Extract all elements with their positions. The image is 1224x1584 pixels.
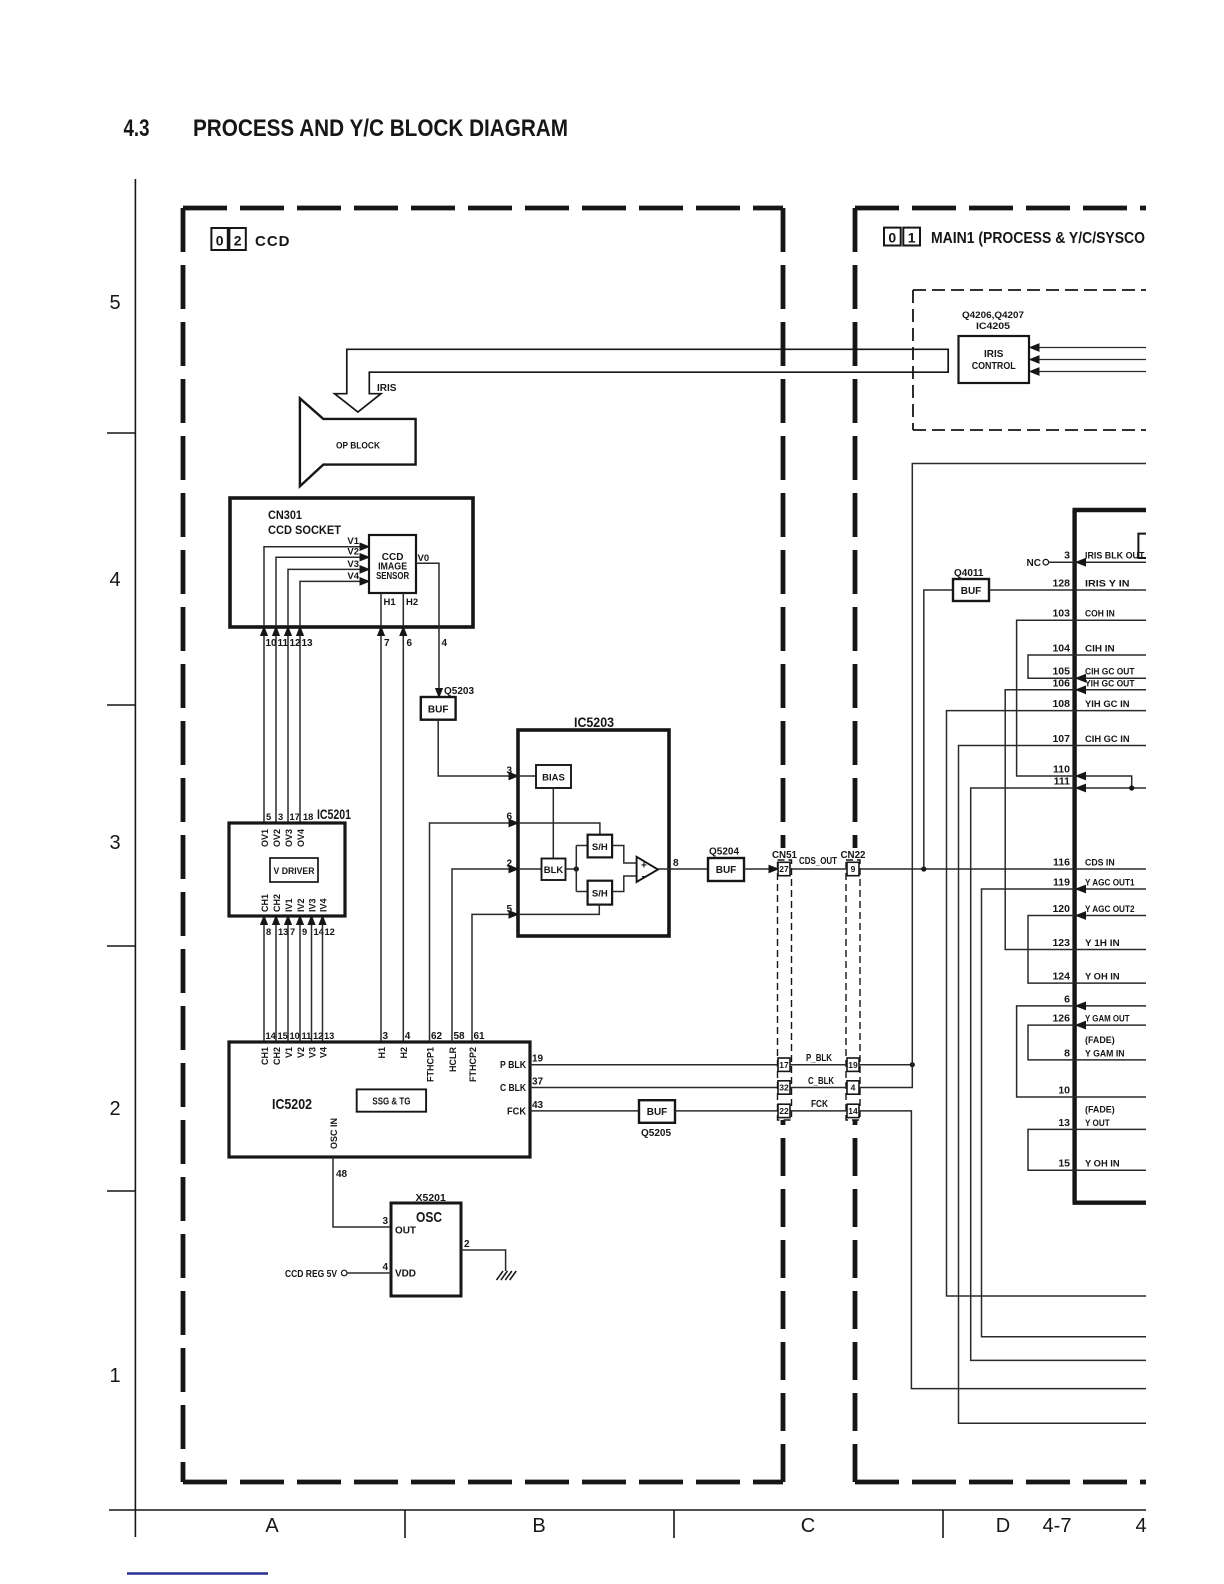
CN51 pin 27: [778, 862, 790, 875]
wire V0 sensor output to Q5203: [416, 563, 439, 689]
ruler tick 2/1: [107, 1190, 135, 1192]
svg-text:C: C: [801, 1515, 815, 1537]
block 01 MAIN1 dashed border bottom: [855, 1480, 1146, 1485]
process IC pin 8 (FADE) Y GAM IN: [1075, 1059, 1146, 1061]
svg-text:CCD SOCKET: CCD SOCKET: [268, 523, 342, 537]
svg-text:Y AGC OUT1: Y AGC OUT1: [1085, 878, 1135, 889]
process IC pin 126 Y GAM OUT: [1075, 1024, 1146, 1026]
svg-text:Y OUT: Y OUT: [1085, 1118, 1110, 1129]
svg-text:NC: NC: [1027, 558, 1041, 569]
svg-text:CN22: CN22: [841, 850, 866, 861]
block label 01 MAIN1 (PROCESS & Y/C/SYSCON): [884, 228, 901, 246]
svg-text:108: 108: [1052, 698, 1070, 710]
svg-text:4-7: 4-7: [1043, 1515, 1072, 1537]
IC U IC5202 SSG timing generator box: [229, 1042, 530, 1157]
wire Q5203 output to IC5203 pin 3: [438, 720, 509, 776]
svg-text:48: 48: [336, 1169, 348, 1180]
process IC pin 110: [1075, 776, 1132, 788]
svg-text:IV2: IV2: [296, 898, 306, 912]
svg-text:IC5201: IC5201: [317, 806, 351, 822]
svg-text:CDS_OUT: CDS_OUT: [799, 856, 837, 867]
wire 14 IC5202 to IC5201: [311, 916, 313, 1042]
svg-text:CH1: CH1: [260, 1047, 270, 1065]
block 02 CCD dashed border right upper: [781, 208, 786, 848]
svg-text:V3: V3: [347, 559, 359, 570]
wire IC5202 pin 61 to IC5203 pin 5: [472, 914, 509, 1042]
svg-text:C BLK: C BLK: [500, 1083, 527, 1094]
connector CN51 dashed body: [778, 860, 792, 1120]
svg-text:COH IN: COH IN: [1085, 609, 1115, 620]
wire CCD REG 5V to VDD: [347, 1272, 391, 1274]
SSG & TG inner box: [357, 1089, 426, 1111]
svg-text:11: 11: [302, 1031, 312, 1041]
block label 02 CCD: [211, 228, 227, 250]
buffer Q5204: [708, 858, 744, 881]
svg-text:4.3: 4.3: [124, 115, 150, 142]
svg-text:0: 0: [216, 233, 224, 249]
svg-text:11: 11: [278, 638, 289, 649]
wire C BLK to CN51 pin 32: [530, 1087, 778, 1089]
svg-text:OSC IN: OSC IN: [329, 1118, 339, 1149]
svg-text:CH1: CH1: [260, 894, 270, 912]
wire iris control input 1: [1038, 347, 1146, 349]
svg-text:13: 13: [278, 927, 288, 937]
iris control dashed sub-box left: [912, 290, 914, 430]
svg-text:P_BLK: P_BLK: [806, 1053, 833, 1064]
IC U IC5201 V driver box: [229, 823, 345, 916]
wire op-amp output pin 8: [658, 868, 708, 870]
wire P BLK to CN51 pin 17: [530, 1064, 778, 1066]
svg-text:FCK: FCK: [507, 1106, 527, 1117]
process IC pin 13 (FADE) Y OUT: [1075, 1128, 1146, 1130]
svg-text:3: 3: [383, 1031, 389, 1042]
ruler tick 3/2: [107, 945, 135, 947]
svg-text:IC5203: IC5203: [574, 714, 614, 730]
svg-text:10: 10: [1058, 1085, 1070, 1097]
svg-text:12: 12: [290, 638, 302, 649]
footer tick B/C: [673, 1510, 675, 1538]
svg-text:IRIS Y IN: IRIS Y IN: [1085, 579, 1130, 590]
wire S/H 1 to op-amp: [612, 846, 637, 864]
svg-text:H2: H2: [406, 597, 418, 608]
wire iris control input 2: [1038, 359, 1146, 361]
svg-text:IV1: IV1: [284, 898, 294, 912]
svg-text:P BLK: P BLK: [500, 1060, 527, 1071]
svg-text:HCLR: HCLR: [448, 1047, 458, 1072]
svg-text:1: 1: [109, 1365, 120, 1387]
S/H sample hold box 1: [588, 835, 613, 858]
svg-text:FTHCP1: FTHCP1: [425, 1047, 435, 1082]
svg-text:BIAS: BIAS: [542, 773, 565, 784]
ground symbol: [497, 1271, 504, 1280]
svg-text:CN301: CN301: [268, 508, 302, 522]
svg-text:BUF: BUF: [428, 705, 449, 716]
svg-text:(FADE): (FADE): [1085, 1104, 1115, 1115]
svg-text:15: 15: [278, 1031, 288, 1041]
wire V4 from CN301 pin to sensor: [300, 581, 361, 823]
svg-text:3: 3: [109, 832, 120, 854]
S/H sample hold box 2: [588, 881, 613, 905]
svg-text:104: 104: [1052, 643, 1070, 655]
svg-text:3: 3: [382, 1216, 388, 1227]
svg-text:8: 8: [1064, 1047, 1070, 1059]
svg-text:OV4: OV4: [296, 829, 306, 847]
ruler tick 5/4: [107, 432, 135, 434]
process IC pin 120 Y AGC OUT2: [1075, 915, 1146, 917]
svg-text:D: D: [996, 1515, 1010, 1537]
svg-text:OSC: OSC: [416, 1209, 442, 1226]
wire V1 from CN301 pin to sensor: [264, 547, 361, 823]
svg-text:V4: V4: [318, 1047, 328, 1058]
svg-text:4: 4: [851, 1083, 856, 1093]
svg-text:5: 5: [109, 292, 120, 314]
svg-text:14: 14: [848, 1106, 858, 1116]
svg-text:IC5202: IC5202: [272, 1096, 312, 1113]
wire pin 13 to pin 15 loop: [1028, 1129, 1075, 1170]
process IC pin 108 YIH GC IN: [1075, 710, 1146, 712]
wire pin 107 long loop: [959, 746, 1147, 1424]
svg-text:Y 1H IN: Y 1H IN: [1085, 938, 1120, 949]
arrow into CN301 pin 11: [273, 627, 280, 636]
buffer Q5203: [436, 689, 443, 698]
svg-text:OV1: OV1: [260, 829, 270, 847]
wire S/H 2 to op-amp: [612, 876, 637, 892]
svg-text:IV4: IV4: [318, 898, 328, 912]
wire CDS to Q4011 input: [924, 590, 953, 869]
wire FCK CN51 to CN22: [790, 1110, 847, 1112]
svg-text:19: 19: [848, 1060, 858, 1070]
svg-text:(FADE): (FADE): [1085, 1035, 1115, 1046]
process IC pin 124 Y OH IN: [1075, 982, 1146, 984]
svg-text:MAIN1 (PROCESS & Y/C/SYSCO: MAIN1 (PROCESS & Y/C/SYSCO: [931, 230, 1145, 247]
block 02 CCD dashed border bottom: [183, 1480, 783, 1485]
svg-text:−: −: [642, 872, 648, 883]
wire CDS_OUT CN51 to CN22: [790, 868, 847, 870]
IC U main process IC top edge: [1073, 508, 1147, 512]
svg-text:CIH GC OUT: CIH GC OUT: [1085, 667, 1135, 678]
svg-text:CIH GC IN: CIH GC IN: [1085, 734, 1130, 745]
oscillator X5201 box: [391, 1203, 461, 1296]
svg-text:OP BLOCK: OP BLOCK: [336, 441, 380, 452]
process IC pin 123 Y 1H IN: [1075, 949, 1146, 951]
process IC pin 6: [1075, 1005, 1146, 1007]
wire IC5202 pin 58 to IC5203 pin 2: [452, 869, 509, 1042]
wire IC5202 pin 62 to IC5203 pin 6: [430, 823, 510, 1042]
process IC pin 116 CDS IN: [1075, 868, 1146, 870]
wire CDS to process IC pin 116: [859, 868, 1075, 870]
svg-text:12: 12: [325, 927, 335, 937]
svg-text:S/H: S/H: [592, 889, 608, 900]
IC U main process IC bottom edge: [1073, 1200, 1147, 1204]
wire C_BLK CN51 to CN22: [790, 1087, 847, 1089]
arrow into CN301 pin 12: [285, 627, 292, 636]
V DRIVER inner box: [270, 858, 318, 882]
svg-text:10: 10: [290, 1031, 300, 1041]
BIAS inner box: [518, 775, 536, 777]
BLK inner box: [542, 859, 566, 881]
svg-text:Y OH IN: Y OH IN: [1085, 972, 1120, 983]
svg-text:22: 22: [779, 1106, 789, 1116]
svg-text:H1: H1: [377, 1047, 387, 1059]
wire BLK to S/H split: [566, 868, 577, 870]
svg-text:4: 4: [1135, 1515, 1146, 1537]
svg-text:IRIS: IRIS: [984, 349, 1004, 360]
process IC pin 15 Y OH IN: [1075, 1169, 1146, 1171]
wire P_BLK CN51 to CN22: [790, 1064, 847, 1066]
blue scan artifact line: [127, 1572, 268, 1575]
svg-text:17: 17: [290, 812, 300, 822]
svg-text:CIH IN: CIH IN: [1085, 644, 1115, 655]
block 01 MAIN1 dashed border left upper: [853, 208, 858, 848]
wire pin 120 to pin 124 loop: [1028, 916, 1075, 984]
svg-text:CH2: CH2: [272, 894, 282, 912]
svg-text:13: 13: [302, 638, 314, 649]
svg-text:V3: V3: [307, 1047, 317, 1058]
svg-text:110: 110: [1053, 764, 1070, 776]
svg-text:58: 58: [454, 1031, 466, 1042]
wire IC5202 pin 48 to OSC: [333, 1157, 391, 1227]
process IC pin 106 YIH GC OUT: [1075, 689, 1146, 691]
svg-text:43: 43: [532, 1100, 544, 1111]
junction dot CDS / Q4011 input: [921, 866, 926, 871]
svg-text:C_BLK: C_BLK: [808, 1076, 835, 1087]
svg-text:Q4011: Q4011: [954, 568, 984, 579]
OP BLOCK optical block symbol: [300, 398, 416, 486]
svg-text:CDS IN: CDS IN: [1085, 858, 1115, 869]
wire pin 108 long loop: [947, 711, 1147, 1296]
svg-text:62: 62: [431, 1031, 443, 1042]
process IC pin 105 CIH GC OUT: [1075, 677, 1146, 679]
process IC pin 111: [1075, 787, 1146, 789]
block 02 CCD dashed border left: [181, 208, 186, 1482]
svg-text:BUF: BUF: [961, 586, 982, 597]
wire 12 IC5202 to IC5201: [322, 916, 324, 1042]
svg-text:5: 5: [266, 812, 271, 822]
svg-text:14: 14: [266, 1031, 277, 1041]
process IC pin 10: [1075, 1096, 1146, 1098]
svg-text:IV3: IV3: [307, 898, 317, 912]
wire NC to pin 3: [1049, 561, 1075, 563]
svg-text:Q5204: Q5204: [709, 847, 739, 858]
CCD image sensor box: [369, 535, 416, 593]
svg-text:3: 3: [506, 766, 512, 777]
svg-text:IRIS BLK OUT: IRIS BLK OUT: [1085, 551, 1145, 562]
junction dot P_BLK: [910, 1062, 915, 1067]
svg-text:120: 120: [1052, 903, 1070, 915]
svg-text:FTHCP2: FTHCP2: [468, 1047, 478, 1082]
CN22 pin 4: [847, 1081, 859, 1094]
svg-text:Y GAM IN: Y GAM IN: [1085, 1048, 1125, 1059]
wire H1 sensor to IC5202 pin 3: [380, 593, 382, 1042]
wire pin 103 to pin 110 loop: [1017, 620, 1075, 776]
svg-text:CCD REG 5V: CCD REG 5V: [285, 1269, 337, 1280]
svg-text:B: B: [532, 1515, 545, 1537]
svg-text:107: 107: [1052, 733, 1070, 745]
svg-text:H1: H1: [384, 597, 397, 608]
svg-text:1: 1: [908, 230, 916, 246]
svg-text:4: 4: [442, 638, 448, 649]
footer tick A/B: [404, 1510, 406, 1538]
wire Q5205 to CN51 pin 22: [675, 1110, 778, 1112]
wire Q5204 to CN51 pin 27: [744, 868, 769, 870]
svg-text:0: 0: [888, 230, 896, 246]
svg-text:BLK: BLK: [544, 865, 564, 876]
svg-text:126: 126: [1052, 1013, 1070, 1025]
svg-text:X5201: X5201: [416, 1192, 447, 1204]
wire Q4011 to pin 128 IRIS Y IN: [989, 589, 1075, 591]
block 01 MAIN1 dashed border left lower: [853, 1120, 858, 1482]
svg-text:123: 123: [1052, 937, 1070, 949]
svg-text:2: 2: [234, 233, 242, 249]
CN51 pin 22: [778, 1104, 790, 1117]
svg-text:4: 4: [109, 569, 120, 591]
svg-text:2: 2: [109, 1098, 120, 1120]
svg-text:106: 106: [1052, 677, 1070, 689]
svg-text:18: 18: [303, 812, 313, 822]
wire pin 104 to pin 105 loop: [1028, 655, 1075, 678]
block 02 CCD dashed border right lower: [781, 1120, 786, 1482]
process IC pin 128 IRIS Y IN: [1075, 589, 1146, 591]
svg-text:VDD: VDD: [395, 1269, 416, 1280]
svg-text:119: 119: [1053, 877, 1070, 889]
svg-text:13: 13: [1058, 1117, 1070, 1129]
wire pin 111 long loop: [971, 788, 1146, 1360]
wire pin 6 to pin 10 loop: [1017, 1006, 1075, 1097]
svg-text:SSG & TG: SSG & TG: [372, 1097, 410, 1108]
svg-text:V DRIVER: V DRIVER: [274, 866, 315, 876]
svg-text:V1: V1: [347, 536, 359, 547]
svg-text:Y OH IN: Y OH IN: [1085, 1159, 1120, 1170]
svg-text:103: 103: [1052, 608, 1070, 620]
IRIS hollow arrow from iris control to OP BLOCK: [335, 349, 949, 412]
svg-text:SENSOR: SENSOR: [376, 571, 410, 582]
svg-text:OUT: OUT: [395, 1226, 416, 1237]
svg-text:61: 61: [474, 1031, 486, 1042]
footer rule line: [109, 1509, 1146, 1511]
svg-text:15: 15: [1058, 1158, 1070, 1170]
left ruler line: [134, 179, 136, 1537]
iris control box U IC4205: [959, 336, 1030, 383]
svg-text:8: 8: [673, 858, 679, 869]
svg-text:H2: H2: [399, 1047, 409, 1059]
CN51 pin 32: [778, 1081, 790, 1094]
svg-text:PROCESS AND Y/C BLOCK DIAGRAM: PROCESS AND Y/C BLOCK DIAGRAM: [193, 115, 568, 142]
iris control dashed sub-box top: [913, 289, 1146, 291]
svg-text:12: 12: [313, 1031, 323, 1041]
svg-text:2: 2: [464, 1239, 470, 1250]
process IC pin 3 IRIS BLK OUT: [1075, 561, 1146, 563]
wire P_BLK to loop net: [859, 1064, 912, 1066]
svg-text:YIH GC OUT: YIH GC OUT: [1085, 678, 1135, 689]
block 02 CCD dashed border top: [183, 206, 783, 211]
wire H2 sensor to IC5202 pin 4: [402, 593, 404, 1042]
arrow into CN301 pin 13: [297, 627, 304, 636]
svg-text:124: 124: [1052, 971, 1070, 983]
CN22 pin 19: [847, 1058, 859, 1071]
svg-text:17: 17: [779, 1060, 789, 1070]
wire pin 106 to pin 123 loop: [1005, 690, 1074, 950]
footer tick C/D: [942, 1510, 944, 1538]
svg-text:27: 27: [779, 864, 789, 874]
junction dot BLK split: [574, 866, 579, 871]
svg-text:128: 128: [1052, 578, 1070, 590]
wire C_BLK joining P_BLK net: [859, 464, 1146, 1088]
svg-text:Q5203: Q5203: [444, 686, 474, 697]
wire 7 IC5202 to IC5201: [287, 916, 289, 1042]
svg-text:IC4205: IC4205: [976, 321, 1011, 332]
buffer Q4011: [953, 579, 989, 601]
iris control dashed sub-box bottom: [913, 429, 1146, 431]
svg-text:13: 13: [324, 1031, 334, 1041]
connector CN22 dashed body: [846, 860, 860, 1120]
IC U main process IC left edge: [1072, 510, 1076, 1203]
wire V2 from CN301 pin to sensor: [276, 557, 361, 823]
svg-text:V2: V2: [296, 1047, 306, 1058]
svg-text:V4: V4: [347, 571, 359, 582]
svg-text:BUF: BUF: [647, 1107, 668, 1118]
CN22 pin 9: [847, 862, 859, 875]
wire 8 IC5202 to IC5201: [263, 916, 265, 1042]
svg-text:BUF: BUF: [716, 865, 737, 876]
CN51 pin 17: [778, 1058, 790, 1071]
wire FCK long loop to right: [859, 1111, 1146, 1389]
svg-text:116: 116: [1053, 857, 1070, 869]
wire iris control input 3: [1038, 371, 1146, 373]
svg-text:32: 32: [779, 1083, 789, 1093]
wire FCK to Q5205: [530, 1110, 639, 1112]
svg-text:9: 9: [851, 864, 856, 874]
svg-text:CN51: CN51: [772, 850, 797, 861]
IC U IC5203 box: [518, 730, 669, 936]
svg-text:IRIS: IRIS: [377, 383, 397, 394]
svg-text:Q4206,Q4207: Q4206,Q4207: [962, 310, 1024, 321]
arrow into CN301 pin 10: [261, 627, 268, 636]
process IC pin 104 CIH IN: [1075, 654, 1146, 656]
svg-text:Y GAM OUT: Y GAM OUT: [1085, 1014, 1130, 1025]
svg-text:YIH GC IN: YIH GC IN: [1085, 699, 1130, 710]
svg-text:3: 3: [278, 812, 283, 822]
svg-text:111: 111: [1054, 776, 1071, 788]
svg-text:10: 10: [266, 638, 278, 649]
ruler tick 4/3: [107, 704, 135, 706]
svg-text:V2: V2: [347, 547, 359, 558]
svg-text:V1: V1: [284, 1047, 294, 1058]
junction dot pin 110/111: [1129, 785, 1134, 790]
svg-text:+: +: [641, 861, 647, 872]
svg-text:OV3: OV3: [284, 829, 294, 847]
svg-text:8: 8: [266, 927, 271, 937]
svg-text:105: 105: [1052, 666, 1070, 678]
wire pin 126 to pin 8 loop: [1028, 1025, 1075, 1060]
svg-text:7: 7: [384, 638, 390, 649]
svg-text:9: 9: [302, 927, 307, 937]
connector CN301 CCD SOCKET box: [230, 498, 473, 627]
svg-text:CH2: CH2: [272, 1047, 282, 1065]
op-amp summing amplifier: [637, 857, 658, 882]
svg-text:4: 4: [405, 1031, 411, 1042]
svg-text:37: 37: [532, 1077, 544, 1088]
svg-text:Q5205: Q5205: [641, 1128, 671, 1139]
wire pin 119 long loop: [982, 889, 1147, 1337]
svg-text:V0: V0: [418, 553, 430, 564]
svg-text:6: 6: [407, 638, 413, 649]
process IC pin 107 CIH GC IN: [1075, 745, 1146, 747]
svg-text:OV2: OV2: [272, 829, 282, 847]
wire 9 IC5202 to IC5201: [299, 916, 301, 1042]
wire BIAS to BLK: [552, 788, 554, 859]
svg-text:S/H: S/H: [592, 842, 608, 853]
svg-text:FCK: FCK: [811, 1099, 829, 1110]
